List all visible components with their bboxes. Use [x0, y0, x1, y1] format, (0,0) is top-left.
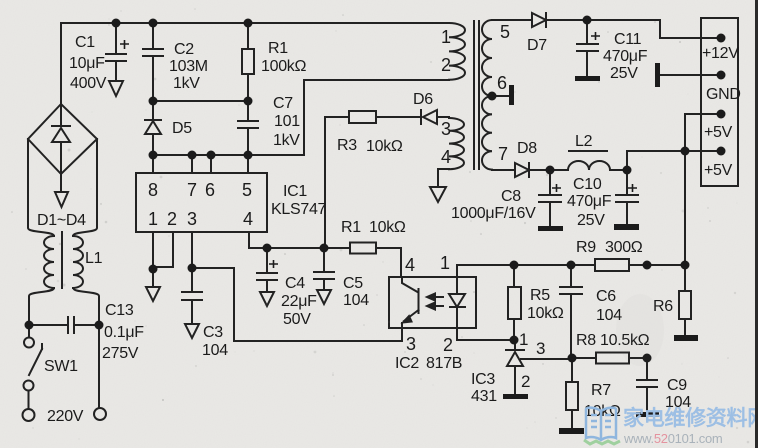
svg-text:4: 4	[243, 209, 253, 229]
svg-text:6: 6	[205, 180, 215, 200]
svg-text:D5: D5	[172, 120, 192, 137]
svg-text:2: 2	[167, 209, 177, 229]
svg-text:D1~D4: D1~D4	[37, 212, 86, 229]
svg-text:220V: 220V	[47, 408, 84, 425]
svg-text:1: 1	[440, 253, 450, 273]
svg-text:C3: C3	[203, 324, 223, 341]
svg-text:+12V: +12V	[702, 45, 739, 62]
svg-text:101: 101	[274, 113, 300, 130]
svg-text:1kV: 1kV	[273, 132, 300, 149]
svg-text:1: 1	[519, 330, 528, 349]
svg-text:1kV: 1kV	[173, 75, 200, 92]
svg-text:431: 431	[471, 388, 497, 405]
svg-text:KLS747: KLS747	[271, 201, 327, 218]
svg-text:5: 5	[500, 22, 510, 42]
svg-text:C4: C4	[285, 275, 305, 292]
svg-text:家电维修资料网: 家电维修资料网	[623, 406, 758, 430]
svg-text:C10: C10	[573, 176, 602, 193]
svg-text:1: 1	[441, 27, 451, 47]
svg-text:25V: 25V	[610, 65, 638, 82]
svg-text:IC3: IC3	[471, 371, 495, 388]
svg-text:C2: C2	[174, 41, 194, 58]
svg-text:R5: R5	[530, 287, 550, 304]
svg-text:www.520101.com: www.520101.com	[623, 431, 722, 446]
svg-text:817B: 817B	[426, 355, 462, 372]
svg-text:L1: L1	[85, 250, 103, 267]
svg-text:3: 3	[406, 334, 416, 354]
svg-text:+5V: +5V	[704, 162, 733, 179]
svg-text:L2: L2	[575, 133, 593, 150]
svg-text:2: 2	[443, 335, 453, 355]
svg-text:6: 6	[497, 73, 507, 93]
svg-text:100kΩ: 100kΩ	[261, 58, 306, 75]
svg-text:104: 104	[343, 292, 369, 309]
svg-text:470μF: 470μF	[603, 48, 648, 65]
svg-text:+5V: +5V	[704, 124, 733, 141]
svg-text:C8: C8	[501, 188, 521, 205]
svg-text:1000μF/16V: 1000μF/16V	[451, 205, 536, 222]
svg-text:3: 3	[536, 339, 545, 358]
svg-text:7: 7	[498, 144, 508, 164]
svg-text:GND: GND	[706, 86, 741, 103]
svg-text:D8: D8	[517, 140, 537, 157]
svg-text:10kΩ: 10kΩ	[366, 138, 403, 155]
svg-text:22μF: 22μF	[281, 293, 317, 310]
svg-text:0.1μF: 0.1μF	[104, 324, 144, 341]
svg-text:10kΩ: 10kΩ	[369, 219, 406, 236]
svg-text:400V: 400V	[70, 75, 107, 92]
svg-text:10kΩ: 10kΩ	[527, 305, 564, 322]
svg-text:275V: 275V	[102, 345, 139, 362]
svg-text:C7: C7	[273, 95, 293, 112]
svg-text:D6: D6	[413, 91, 433, 108]
svg-text:D7: D7	[527, 37, 547, 54]
svg-text:IC2: IC2	[395, 355, 419, 372]
svg-text:C1: C1	[75, 34, 95, 51]
svg-text:300Ω: 300Ω	[605, 239, 643, 256]
svg-text:25V: 25V	[577, 212, 605, 229]
svg-text:C11: C11	[614, 31, 642, 48]
svg-text:IC1: IC1	[283, 183, 307, 200]
svg-text:C5: C5	[343, 275, 363, 292]
svg-text:7: 7	[187, 180, 197, 200]
svg-text:R3: R3	[337, 137, 357, 154]
svg-text:10μF: 10μF	[69, 55, 105, 72]
svg-text:470μF: 470μF	[567, 193, 612, 210]
svg-text:103M: 103M	[169, 58, 208, 75]
svg-text:5: 5	[242, 180, 252, 200]
svg-text:4: 4	[441, 147, 451, 167]
svg-text:4: 4	[405, 255, 415, 275]
svg-text:C9: C9	[667, 377, 687, 394]
svg-text:R1: R1	[341, 219, 361, 236]
svg-text:C6: C6	[596, 288, 616, 305]
svg-text:8: 8	[148, 180, 158, 200]
svg-text:C13: C13	[105, 302, 134, 319]
svg-text:R1: R1	[268, 40, 288, 57]
svg-text:50V: 50V	[283, 311, 311, 328]
svg-text:3: 3	[187, 209, 197, 229]
svg-text:1: 1	[148, 209, 158, 229]
svg-text:R7: R7	[591, 382, 611, 399]
svg-text:R9: R9	[576, 239, 596, 256]
svg-text:2: 2	[441, 55, 451, 75]
svg-text:2: 2	[521, 372, 530, 391]
svg-text:3: 3	[441, 119, 451, 139]
svg-text:104: 104	[202, 342, 228, 359]
